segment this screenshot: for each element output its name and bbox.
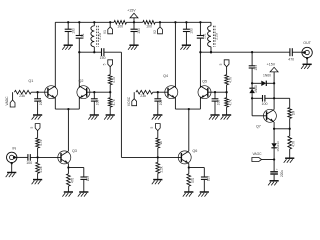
- svg-text:5: 5: [150, 126, 154, 128]
- svg-text:Q6: Q6: [192, 149, 197, 153]
- svg-text:103: 103: [159, 100, 163, 106]
- svg-text:V2: V2: [153, 30, 157, 34]
- svg-text:470: 470: [191, 178, 195, 184]
- svg-text:2.2u: 2.2u: [214, 33, 218, 40]
- svg-text:23k: 23k: [19, 94, 25, 98]
- svg-text:470: 470: [288, 57, 294, 61]
- svg-text:4.7k: 4.7k: [112, 77, 116, 83]
- svg-text:1k: 1k: [159, 141, 163, 145]
- svg-text:151: 151: [202, 33, 206, 39]
- svg-text:470: 470: [70, 178, 74, 184]
- svg-text:103: 103: [39, 100, 43, 106]
- svg-text:103: 103: [137, 28, 141, 34]
- svg-text:5: 5: [219, 63, 223, 65]
- svg-text:1N60: 1N60: [263, 73, 271, 77]
- svg-text:1SS133: 1SS133: [276, 141, 280, 152]
- svg-text:151: 151: [81, 33, 85, 39]
- svg-text:2.2u: 2.2u: [98, 33, 102, 40]
- svg-text:100: 100: [146, 25, 152, 29]
- svg-text:Q3: Q3: [72, 149, 77, 153]
- svg-text:100: 100: [262, 102, 268, 106]
- svg-text:103: 103: [96, 100, 100, 106]
- svg-text:V1: V1: [103, 30, 107, 34]
- svg-text:Q7: Q7: [256, 125, 261, 129]
- svg-text:103: 103: [190, 28, 194, 34]
- svg-text:1M: 1M: [291, 110, 295, 115]
- svg-text:OUT: OUT: [303, 41, 311, 45]
- svg-text:2.2k: 2.2k: [159, 166, 163, 172]
- svg-text:103: 103: [86, 176, 90, 182]
- svg-text:103: 103: [71, 28, 75, 34]
- svg-text:+15V: +15V: [267, 63, 276, 67]
- svg-text:2.2k: 2.2k: [39, 166, 43, 172]
- svg-text:4.7k: 4.7k: [228, 77, 232, 83]
- svg-text:Q2: Q2: [79, 79, 84, 83]
- svg-text:4.7k: 4.7k: [228, 99, 232, 105]
- svg-text:VAGC: VAGC: [252, 152, 262, 156]
- svg-text:VOSC: VOSC: [127, 96, 131, 106]
- svg-text:Q5: Q5: [202, 79, 207, 83]
- svg-text:103: 103: [216, 100, 220, 106]
- svg-text:5: 5: [103, 63, 107, 65]
- svg-text:+15V: +15V: [127, 9, 136, 13]
- svg-text:+: +: [276, 167, 278, 171]
- svg-text:150: 150: [100, 56, 106, 60]
- svg-text:1N60: 1N60: [254, 85, 258, 93]
- svg-text:Q1: Q1: [28, 79, 33, 83]
- svg-text:Q4: Q4: [163, 74, 168, 78]
- svg-text:23k: 23k: [140, 94, 146, 98]
- svg-text:4.7k: 4.7k: [39, 139, 43, 145]
- svg-text:IN: IN: [12, 146, 16, 150]
- svg-text:151: 151: [254, 65, 258, 71]
- svg-text:220u: 220u: [280, 170, 284, 177]
- svg-text:103: 103: [206, 176, 210, 182]
- svg-text:VADC: VADC: [5, 96, 9, 106]
- svg-text:4.7k: 4.7k: [291, 141, 295, 147]
- svg-text:100: 100: [26, 161, 32, 165]
- svg-text:100: 100: [117, 25, 123, 29]
- svg-text:5: 5: [30, 126, 34, 128]
- svg-text:4.7k: 4.7k: [112, 99, 116, 105]
